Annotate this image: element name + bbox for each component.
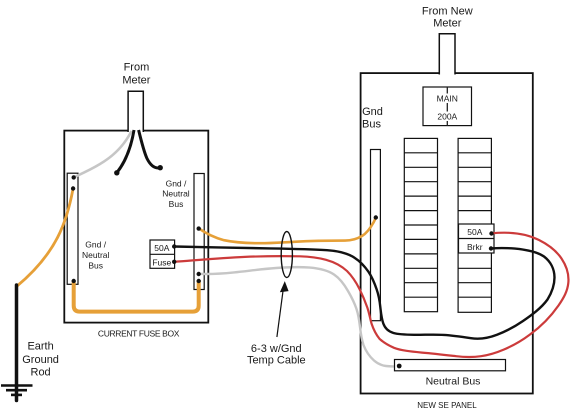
svg-text:200A: 200A [437, 112, 457, 122]
conduit from meter (left) [128, 91, 143, 132]
svg-text:Ground: Ground [22, 354, 59, 366]
svg-text:Neutral Bus: Neutral Bus [426, 376, 481, 388]
cable marker ellipse: 6-3 w/Gnd temp cable [281, 232, 292, 278]
svg-text:Meter: Meter [122, 75, 150, 87]
svg-text:Gnd: Gnd [362, 106, 383, 118]
breaker Q1: 50A Brkr box [459, 224, 495, 253]
svg-text:6-3 w/Gnd: 6-3 w/Gnd [251, 343, 302, 355]
svg-text:NEW SE PANEL: NEW SE PANEL [417, 401, 477, 410]
node: gray wire to left bus [72, 175, 76, 179]
arrow to cable [277, 291, 283, 337]
node: black wire at 50A fuse [172, 244, 176, 248]
node: red wire at Fuse [172, 260, 176, 264]
svg-text:From: From [124, 61, 150, 73]
node: hot lead 1 end [114, 170, 119, 175]
breaker ladder: right column [458, 138, 491, 312]
wire: red hot (Fuse to 50A breaker) [174, 233, 568, 357]
node: orange U at left bus bottom [72, 279, 76, 283]
svg-text:Temp Cable: Temp Cable [247, 355, 306, 367]
enclosure: new SE panel outline [361, 73, 533, 393]
ground symbol [1, 384, 33, 387]
node: gray at neutral bus [397, 364, 402, 369]
wire: black hot lead 2 from meter [139, 130, 160, 168]
wire: black hot (50A fuse to Brkr breaker) [174, 247, 554, 339]
enclosure: current fuse box outline [64, 131, 208, 323]
svg-text:Rod: Rod [31, 367, 51, 379]
node: orange ground wire at left bus [71, 186, 75, 190]
svg-text:From New: From New [422, 6, 473, 18]
bus bar: left gnd/neutral bus (fuse box) [67, 173, 78, 284]
svg-text:Fuse: Fuse [152, 257, 171, 267]
node: orange at right bus top [197, 226, 201, 230]
svg-text:Meter: Meter [433, 17, 461, 29]
svg-text:Gnd /: Gnd / [85, 240, 106, 250]
node: red at 50A breaker [489, 231, 493, 235]
svg-text:50A: 50A [154, 243, 169, 253]
earth ground rod [15, 285, 19, 401]
wire: orange ground wire between panels [199, 218, 376, 244]
wire: black hot lead 1 from meter [117, 130, 134, 172]
svg-text:Earth: Earth [27, 341, 53, 353]
svg-text:Neutral: Neutral [162, 189, 190, 199]
wire: white service neutral (from meter, gray) [76, 131, 132, 177]
node: hot lead 2 end [158, 165, 163, 170]
svg-text:CURRENT FUSE BOX: CURRENT FUSE BOX [98, 328, 180, 338]
node: black at Brkr breaker [489, 246, 493, 250]
bus bar: neutral bus (SE panel) [395, 360, 506, 371]
bus bar: gnd bus (SE panel) [371, 150, 381, 321]
bus bar: right gnd/neutral bus (fuse box) [194, 174, 204, 290]
svg-text:50A: 50A [467, 227, 482, 237]
svg-text:Gnd /: Gnd / [166, 178, 187, 188]
svg-text:MAIN: MAIN [437, 93, 458, 103]
svg-text:Brkr: Brkr [467, 242, 483, 252]
node: orange at gnd bus [374, 215, 378, 219]
svg-text:Bus: Bus [362, 118, 381, 130]
svg-text:Neutral: Neutral [82, 250, 110, 260]
breaker U2: MAIN 200A [423, 87, 472, 126]
node: gray wire at right bus [197, 272, 201, 276]
wire: orange ground wire to earth rod [17, 189, 74, 287]
conduit from new meter (right) [439, 34, 455, 75]
breaker ladder: left column [404, 138, 437, 311]
wire: orange bonding jumper (U shape, bottom of fuse box) [74, 280, 199, 312]
node: orange U at right bus bottom [197, 279, 201, 283]
wire: white neutral (gray, to Neutral Bus) [199, 267, 399, 366]
svg-text:Bus: Bus [88, 260, 103, 270]
fuse F1: 50A Fuse box [150, 240, 175, 268]
svg-text:Bus: Bus [169, 199, 184, 209]
